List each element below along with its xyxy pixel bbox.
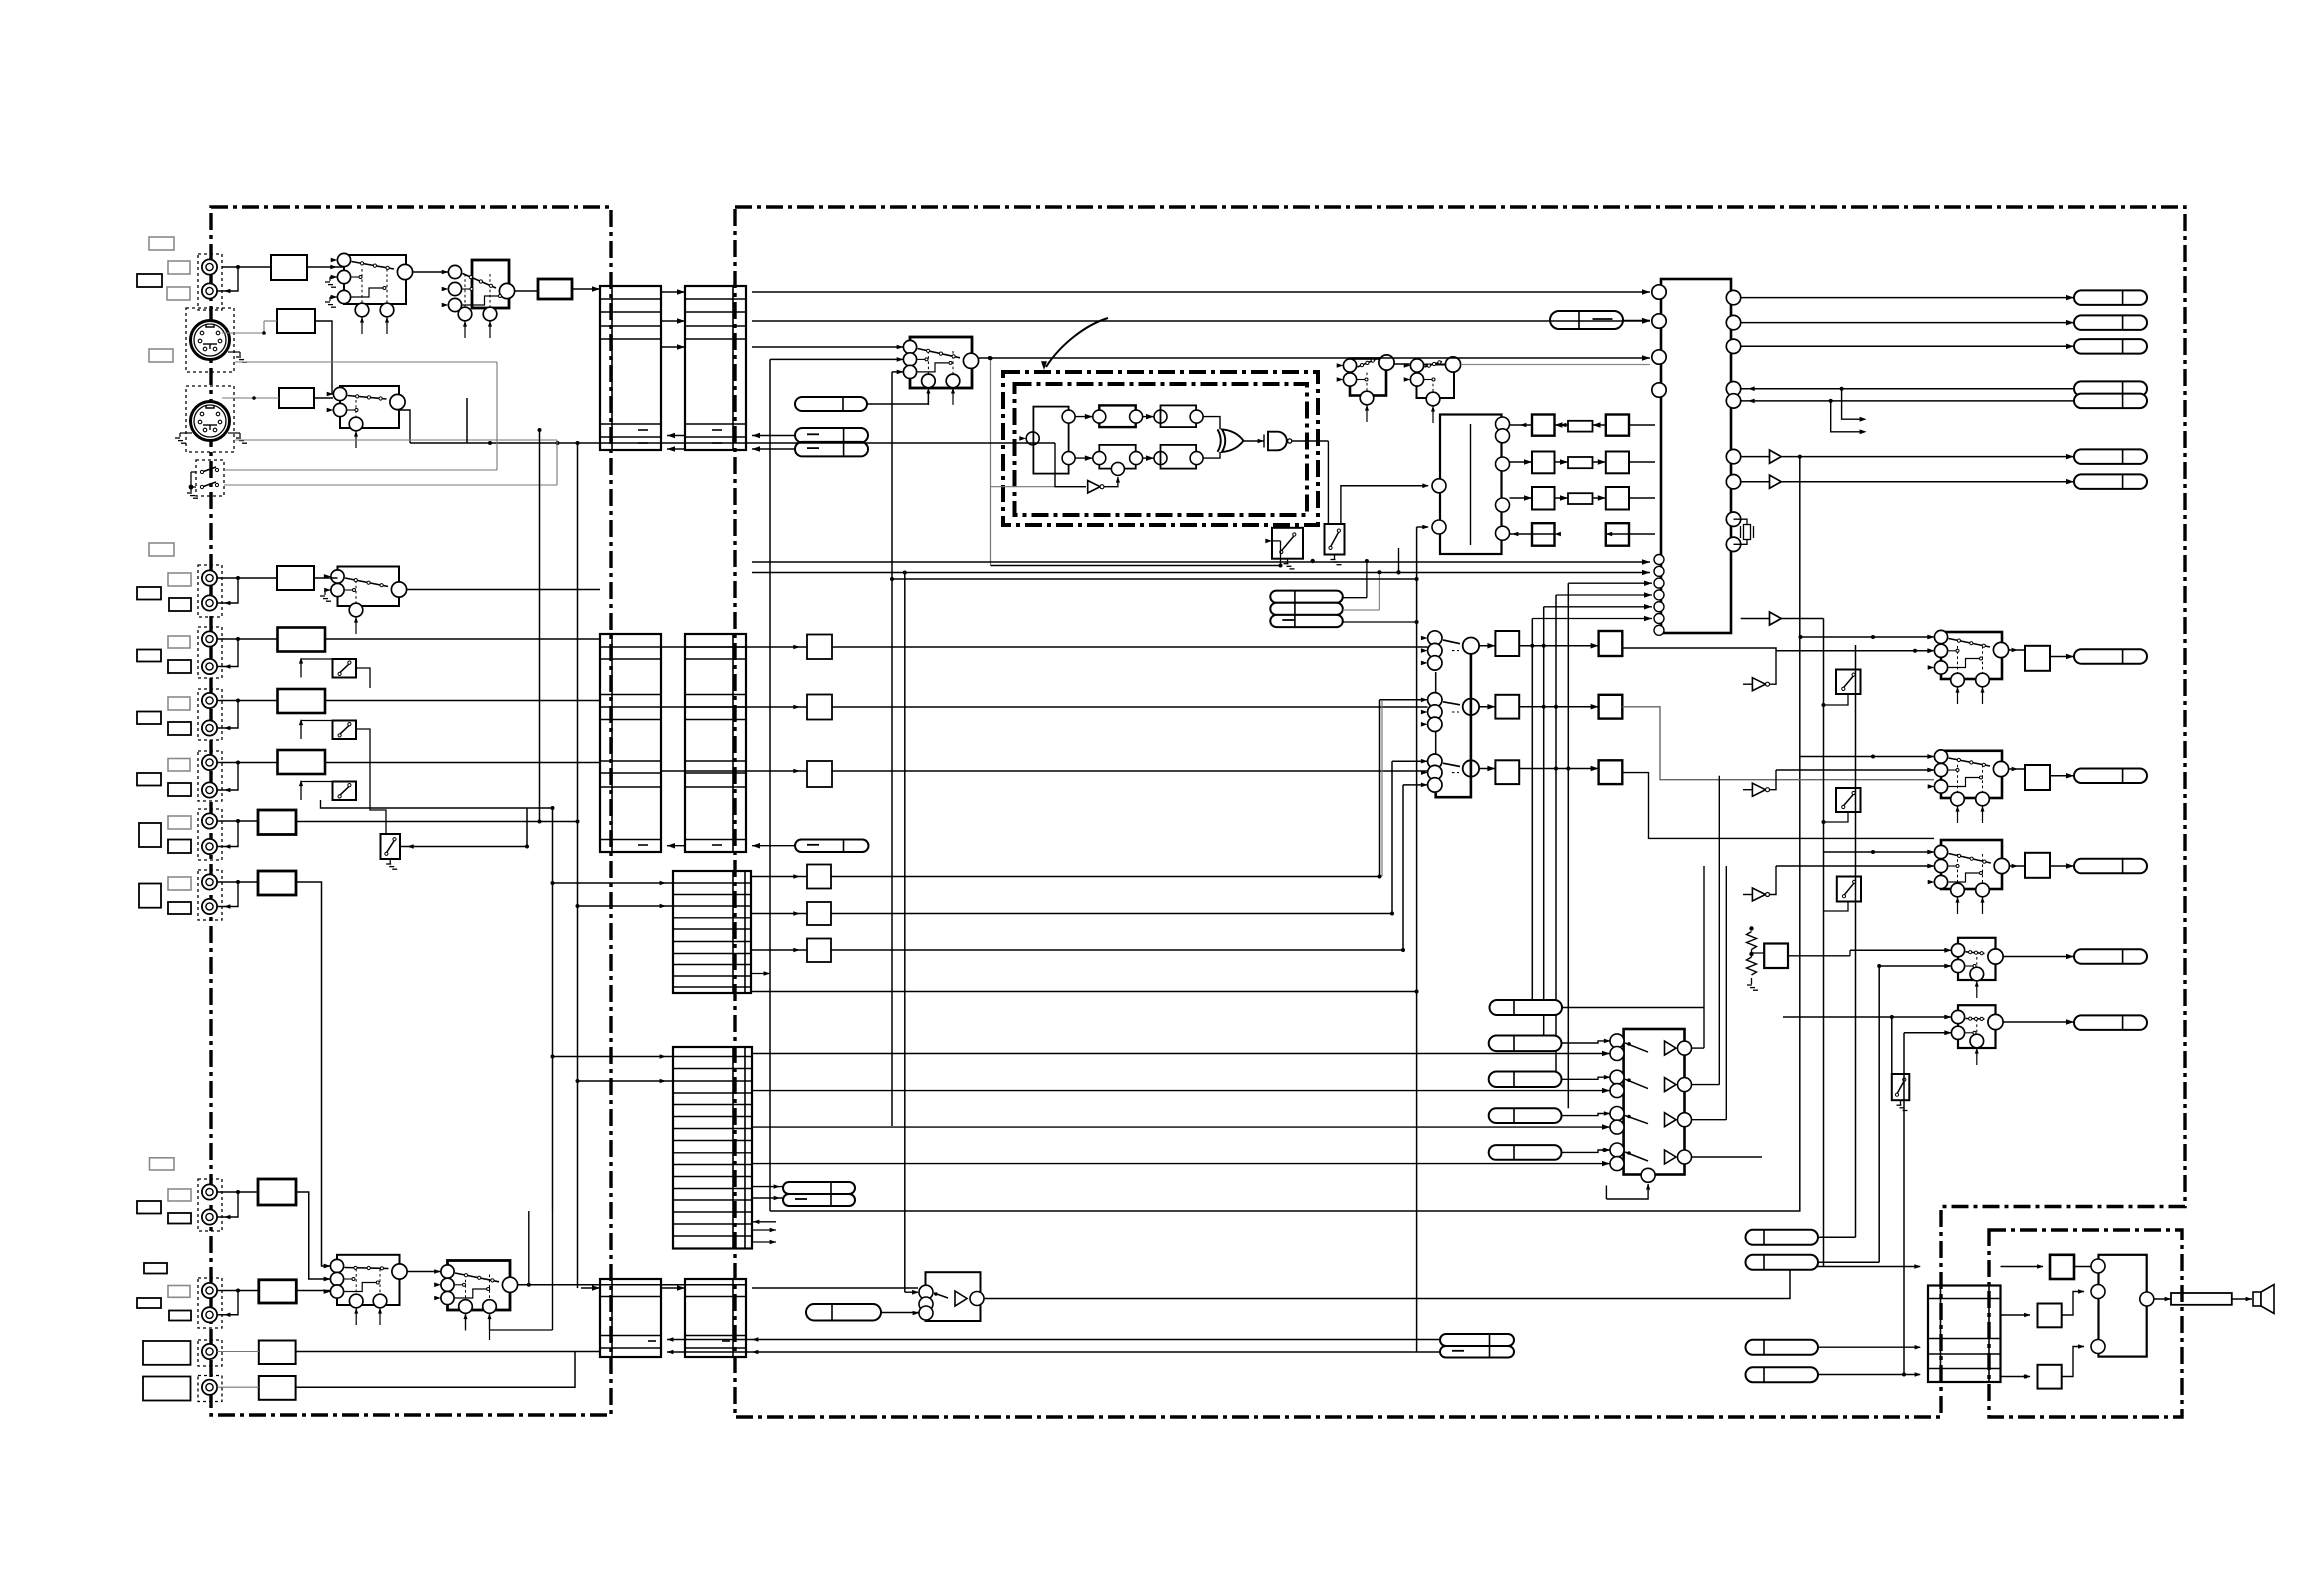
arrow stub bus D [752,973,770,975]
filter block grid row1 mid [1568,421,1593,432]
label box [168,783,191,796]
filter block grid row4 right [1606,523,1629,546]
resistor ladder [1747,932,1757,950]
bus E arrows right 1 [752,1229,776,1231]
ground at DIN2 left [180,432,192,434]
IC 1H delay / Y-C separate [1440,415,1502,555]
audio2 return [217,701,238,729]
feed S4 in1 [1850,949,1951,951]
crystal resonator at IC [1734,519,1748,524]
wire pill1 riser [1343,597,1367,599]
connector CN C1 (jack board, bottom) [600,1279,661,1357]
wire buffer2 to pill [1781,481,2074,483]
wire jack mic2 (gray) [217,1386,259,1388]
vertical x1823.5 [1823,619,1825,1268]
s-video DIN connector 1 (dotted box) [186,308,234,372]
pin circle record select in [1428,717,1442,731]
rec out switch K7 [1404,357,1461,423]
switch lever record select [1443,640,1460,644]
switch box right low [1892,1074,1910,1100]
inverter row in1 [1610,1107,1624,1121]
wire blockK to K11 [296,1290,330,1292]
riser swboxF to blockF [301,721,333,740]
amp pill in 2 [1746,1255,1819,1270]
wire bus D row to riser [752,991,1417,993]
wide pill row4 [1489,1108,1562,1123]
feed bus E left 2 [578,1080,674,1082]
dash-dot border: main board (right block, notched bottom-right) [735,207,2185,1417]
label box [137,1201,161,1214]
output pill audio 4 [2074,949,2147,964]
wire bus A2 to IC pin (video) [752,291,1650,293]
pin circle switch IC left (control group) [1654,602,1664,612]
wire audio4 jack to blockH [217,820,258,822]
wire blockG out [325,762,600,764]
output mute switch group S3 [1928,840,2010,914]
wire pill to bus A2 upper [752,435,795,437]
wire IC pin to output pill 2 [1741,322,2074,324]
pin circle switch IC right [1726,394,1740,408]
wire amp pill3 [1818,1346,1920,1348]
wire inter-bus A1-A2 c2 [661,346,685,348]
wire pill return upper [667,1339,1440,1341]
wire bus F to amp C [2001,1376,2031,1378]
label box (gray) [168,877,191,890]
sync switch box below comb [1272,528,1303,559]
feed bus D left 2 [578,905,674,907]
wire inter-bus A1-A2 chroma [661,320,685,322]
amp block A (thick) [2050,1255,2074,1279]
double pill return wires [1440,1334,1514,1346]
comb node [1154,452,1167,465]
ground at DIN1 [228,351,240,353]
pin circle record select in [1428,693,1442,707]
wire y572.5 to IC [752,572,1650,574]
wire into monitor pill a [752,1186,783,1188]
wire K12 bottom risers [465,1314,467,1330]
inner divider 1H delay block [1470,424,1472,545]
block buffer A (video in 1) [271,255,307,280]
square S3 out [2025,853,2050,878]
comb delay block top 2 [1161,405,1197,427]
comb adder node [1111,462,1124,475]
comb wires bottom path [1075,457,1093,459]
wire out S1 to square [2009,649,2025,651]
wire into attenuator [751,913,807,915]
label box (gray) [168,636,190,648]
feed S4 in2 [1879,965,1951,967]
buffer amp s-video 2 [1770,475,1782,488]
connector CN C2 (main board, bottom) [685,1279,746,1357]
pin circle record select out [1463,699,1479,715]
wire into attenuator [661,770,807,772]
comb node [1093,410,1106,423]
wire out of attenuator [832,770,1428,772]
signal pill pair to CN A (upper) [795,428,868,443]
bend switchboxG to riser [321,800,553,808]
riser to record select [1391,761,1393,913]
mode switch pair (dotted box) [196,460,224,496]
vertical x1416.5 [1416,527,1418,1352]
wire K12 out [518,1284,746,1286]
attenuator square block [807,939,831,963]
inverter row out [1678,1078,1692,1092]
comb bottom wire [991,565,1281,567]
wire to 1H delay in2 [1417,526,1428,528]
gray link DIN1-switchpair [235,361,497,363]
sync switch box 2 (to 1H delay) [1325,524,1345,555]
wire pin to buffer 1 [1741,456,1770,458]
vertical wire x552.5 [552,808,554,1211]
connector CN E (mid tall, lower) [673,1047,752,1249]
wire y443 drop to comb inverter [1055,443,1086,487]
jack video1 return bend [217,267,238,291]
vertical x1904 [1903,1033,1905,1375]
wire amp C to mixer [2062,1347,2084,1377]
pin circle switch IC left [1652,350,1666,364]
wires filter grid row3 [1555,497,1569,499]
block buffer B (to CN A1) [538,279,572,299]
vertical wire x539.5 [539,430,541,822]
output pill audio 2 [2074,769,2147,784]
pin circle record select in [1428,778,1442,792]
buffer amp s-video 1 [1770,450,1782,463]
wire out S3 to square [2010,865,2026,867]
wire out of attenuator [831,949,1403,951]
s-video DIN connector 2 (dotted box) [186,386,234,452]
wire right sq out row2 [1622,707,1934,780]
jack pair audio2 L/R (dotted box) [198,689,222,740]
link swboxE [356,668,370,688]
record squares row2 [1495,695,1519,719]
wire out of attenuator [831,876,1380,878]
pin circle switch IC right [1726,339,1740,353]
inverter row in1 [1610,1070,1624,1084]
wire buffer mid1 [1743,683,1752,685]
label box [139,823,161,847]
pill1 riser to K5 [867,390,928,404]
audio4 return [217,821,238,847]
comb output joins [1203,417,1220,430]
comb filter splitter block [1033,407,1068,474]
wire DIN1 to blockC (gray) [222,332,264,334]
buffer triangle upper (control) [1770,612,1782,625]
block buffer L (mic amp 1) [259,1341,296,1365]
pin circle switch IC left (control group) [1654,625,1664,635]
ground resistor ladder [1751,978,1753,984]
wire audio6 jack to blockJ [217,1191,258,1193]
inverter row in2 [1610,1047,1624,1061]
attenuator square block [807,902,831,925]
wire buffer1 to pill [1781,456,2074,458]
wire blockE out [325,638,600,640]
block buffer C2 (s-video c) [279,388,314,408]
label box [168,722,191,735]
wire blockF out [325,700,600,702]
label box (gray) [168,759,190,772]
XOR gate [1222,429,1244,452]
audio3 return [217,763,238,791]
K13 buffer [955,1291,967,1306]
wire into attenuator [751,876,807,878]
record squares right row1 [1599,631,1623,656]
label box [168,660,191,673]
dash-dot border: comb filter block outer [1003,372,1318,525]
wire S4 out to pill [2003,956,2074,958]
wire wide pill1 out [1562,1007,1704,1009]
input select switch K4 (video2) [324,567,406,635]
wire blockI down to monitor select [296,882,330,1266]
wire IC pin to output pill 3 [1741,345,2074,347]
amp block C [2038,1365,2062,1389]
wire switch common [191,471,196,473]
square S2 out [2025,765,2050,790]
output pill s-video 2 [2074,474,2147,489]
vertical x1891.75 [1891,1017,1893,1074]
ground stub K1 in3 [330,296,337,298]
filter block grid row2 right [1606,452,1629,474]
ground at K4 [325,589,330,591]
vertical x1532.3 [1531,619,1533,1001]
label box (wide) [143,1377,191,1401]
wire S5 out to pill [2003,1021,2074,1023]
pin circle switch IC right [1726,315,1740,329]
label box (gray) [167,287,190,300]
riser from buffer1 output [1799,457,1801,1211]
inverter column bottom node [1641,1168,1655,1182]
wire blockM out [296,1352,576,1387]
comb node [1093,452,1106,465]
feed bus D left 1 [553,882,674,884]
audio1 return [217,639,238,667]
pin circle switch IC left [1652,383,1666,397]
filter block grid row1 left [1532,415,1555,436]
wire pill return lower [667,1351,1440,1353]
connector CN B2 (main board, audio rows) [685,634,746,852]
wire blockA chain [222,266,271,268]
long wire to inv in2 row4 [752,1163,1610,1165]
output mute switch group S2 [1928,750,2009,823]
block audio amp H [258,810,296,835]
pill to CN B (backfeed) [795,840,869,853]
wire blockB to bus A1 [572,288,600,290]
IC video switch (main) [1661,279,1731,633]
wire label pill to IC pin [1623,320,1650,322]
riser swboxE to blockE [301,659,333,678]
wire bus A2 to K5 in1 [752,346,903,348]
comb node [1130,410,1143,423]
pin circle switch IC right [1726,512,1740,526]
main input switch K5 [897,337,979,405]
square S1 out [2025,646,2050,671]
comb gray input wire to inverter [991,486,1087,488]
wire long into amp bus [1790,1266,1920,1268]
label box (gray) [168,261,190,274]
pin circle switch IC right [1726,290,1740,304]
K13 switch lever [934,1293,948,1298]
buffer triangle mid 2 [1752,783,1765,796]
pin circle switch IC left (control group) [1654,566,1664,576]
amp block B [2038,1304,2062,1328]
output pill video 1 [2074,290,2147,305]
wire K13 out to amp area [984,1267,1920,1299]
feed S1 in2 [1776,650,1933,652]
switch lever record select [1443,702,1460,705]
output mute switch group S4 (2-input) [1945,938,2003,998]
wires filter grid row4 [1532,533,1555,535]
NAND gate [1268,432,1287,451]
wire amp pill1 [1818,1236,1856,1238]
wire wide pill5 to inv in1 [1562,1150,1611,1152]
buffer triangle mid 3 [1752,888,1765,901]
label box [137,1298,161,1308]
wire pin to buffer 2 [1741,481,1770,483]
rec level switch box F [333,721,357,740]
mixer node 3 [2091,1340,2105,1354]
jack pair video1 (dotted box) [198,254,222,310]
pin circle switch IC left [1652,285,1666,299]
K13 in1 [919,1285,933,1299]
switch box right 1 [1836,670,1861,695]
wire R1 out [1479,645,1495,647]
wire y1211 long [770,1210,1801,1212]
filter block grid row2 mid [1568,457,1593,468]
power amp bar [2171,1293,2232,1305]
wire blockJ to K11 [296,1192,330,1279]
block buffer K (video in 3) [259,1280,297,1303]
label box (gray) [149,543,174,556]
wire blockD to K4 [314,577,338,579]
wide pill row1 [1490,1000,1563,1015]
branch arrow a [1842,389,1860,420]
record squares row3 [1495,760,1519,784]
bus E arrows right 2 [752,1241,776,1243]
gray riser wide pill1 [1470,1007,1490,1009]
wire bus A2 to IC pin (chroma) [752,320,1650,322]
inverter column box [1624,1029,1685,1175]
wire blockL out [296,1351,601,1353]
feed bus E left 1 [553,1056,674,1058]
connector CN B1 (jack board, audio rows) [600,634,661,852]
inverter row in2 [1610,1157,1624,1171]
filter block grid row1 right [1606,415,1629,436]
wire sq to sq row1 [1519,645,1598,647]
record squares right row3 [1599,760,1623,784]
feed S5 in2 [1904,1032,1951,1034]
switch box right 3 [1837,877,1861,902]
rec level switch box G [333,782,357,801]
wire buffer mid3 [1743,894,1752,896]
pin circle switch IC left (control group) [1654,590,1664,600]
vertical wire x577.5 [577,443,579,1288]
inverter row switch lever [1625,1079,1648,1088]
audio5 return [217,882,238,907]
label box [144,1263,167,1274]
vertical x1568.3 [1567,583,1569,1108]
monitor inverter cluster K13 box [926,1272,981,1321]
vertical x1556 [1555,595,1557,1072]
monitor switch box H [381,834,401,859]
dash-dot border: comb filter block inner [1015,384,1308,515]
wire K7 out (gray) [1461,364,1650,366]
filter block grid row2 left [1532,452,1555,474]
label box [169,598,191,611]
pin circle record select in [1428,765,1442,779]
label box [139,884,161,908]
wires filter grid row2 [1555,461,1569,463]
output mute switch group S5 (2-input) [1945,1005,2003,1065]
triple pill stack (control labels) [1270,591,1343,603]
wire K4 out to bus B1 [407,589,600,591]
comb delay block bottom 2 [1161,445,1197,469]
wire mixer to power bar [2154,1298,2171,1300]
inverter row in1 [1610,1034,1624,1048]
comb node top split [1062,410,1075,423]
wire into attenuator [661,706,807,708]
block buffer D (video in 2) [277,566,314,590]
filter block grid row3 left [1532,487,1555,510]
pin circle 1H delay right [1496,526,1510,540]
vertical wire x527 [526,808,528,847]
wire into monitor pill b [752,1197,783,1199]
vertical wire x904.75 [904,573,906,1293]
pill stack bottom left (monitor) [783,1182,855,1194]
label box (gray) [168,816,191,829]
audio6 return [217,1192,238,1217]
comb internal feed wire [1068,423,1070,452]
wire x528.75 down [528,1211,530,1285]
long wire to inv in2 row2 [752,1090,1610,1092]
block audio amp E [278,628,326,652]
branch arrow b [1831,401,1860,432]
connector CN A2 (main board side, upper) [685,286,746,450]
switch contact lower [202,482,216,487]
output pill video 2 [2074,315,2147,330]
inverter row in2 [1610,1084,1624,1098]
annotation arrow into comb filter block [1046,318,1108,367]
wire xor to nand [1244,440,1264,442]
signal pill (1H out) [795,397,867,411]
input select switch K1 [331,253,413,334]
vertical wire x467 [466,398,468,443]
wire audio5 jack to blockI [217,881,258,883]
wire x552.5b down [552,1211,554,1330]
ground at mode switch [190,487,192,492]
wires 1H delay to grid [1510,424,1533,426]
wire x892 to K5 in3 [892,371,903,373]
wire IC pin to output pill 1 [1741,297,2074,299]
vertical x1704 [1703,866,1705,1048]
inverter row in2 [1610,1120,1624,1134]
switch box right 2 [1836,788,1861,812]
comb delay block bottom 1 [1099,445,1135,469]
feed S3 in1 [1824,851,1934,853]
label box (gray) [168,697,190,710]
pin circle switch IC right [1726,537,1740,551]
wire bus C2 to K13 [752,1287,918,1289]
pin circle switch IC right [1726,449,1740,463]
wire audio2 jack to blockF [217,700,277,702]
wire pill3 riser [1343,621,1417,623]
link swboxF [356,729,370,749]
wire DIN2 to blockC2 (gray) [222,397,279,399]
block audio amp I [258,871,296,895]
wire square to pill a2 [2050,775,2074,777]
wire x770 to K5 in2 [770,358,903,360]
inverter row switch lever [1625,1116,1648,1124]
wire mic pill3 to bus F [1920,1346,1928,1348]
label box (gray) [168,1286,190,1298]
